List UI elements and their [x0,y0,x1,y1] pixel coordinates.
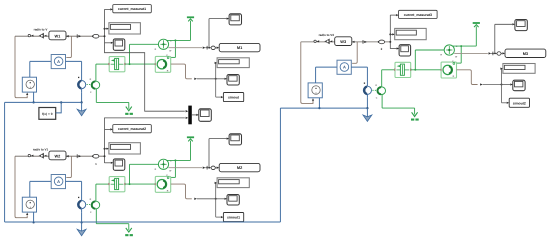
wire sensor 1 speed output to M1 [168,47,202,49]
rotational reference 3 [473,22,480,24]
wire measurement horizontal net 1 [15,35,105,37]
goto tag M2 [219,163,260,171]
arrow on measurement wire 1 [76,34,78,38]
wire damper 1 to motor inertia [125,63,155,65]
dc machine armature 1 [78,77,79,78]
dc voltage source 1 [22,77,36,92]
branch vertical wire 2 [104,129,106,163]
reference rail subsystem 2 [5,221,281,223]
wire source 2 bottom to reference rail [33,212,35,222]
wire sensor 1 case net and rotational reference 1 [167,39,191,41]
svg-text:A: A [57,59,60,64]
port oval before M2 [211,166,215,170]
dc machine armature 3 [364,83,365,84]
damper block 1 [109,57,125,72]
wire sensor 3 speed output to M3 [454,52,488,54]
rotational reference 1 [187,16,194,18]
electrical reference ground 1 [81,102,83,111]
block curent_masurat1 [113,5,152,13]
wire damper 2 to motor inertia [125,183,155,185]
wire measurement horizontal net 3 [301,41,391,43]
wire branch up to speed sensor 1 [129,44,131,64]
wire ammeter 2 output up to measurement net (brown) [66,156,71,177]
goto tag W1 [49,31,66,40]
scope 3b [513,80,525,91]
wire source 3 top to ammeter [315,67,317,83]
reference rail subsystem 1 [5,101,82,103]
wire junction to scope 1b [216,78,225,80]
goto tag W3 [335,37,352,46]
electromech converter 1 [92,81,100,89]
wire junction to display 1b [215,63,217,79]
display 1a [109,23,140,34]
wire machine 2 bottom to reference rail [81,212,83,222]
wire into display 1a [105,28,107,30]
wire junction to simout2 [501,85,503,103]
svg-text:simout: simout [228,96,240,100]
wire into curent_masurat3 [390,14,396,16]
svg-text:curent_masurat2: curent_masurat2 [118,127,146,131]
wire junction to simout [215,79,217,97]
electrical reference ground 3 [366,108,368,117]
goto tag M3 [505,49,546,57]
goto tag W2 [49,151,66,160]
wire down to motor 2 case [174,160,176,177]
wire motor 3 to measurement junction (brown) [457,70,478,85]
port oval 2 [93,154,99,158]
mux [188,106,192,125]
svg-text:M1: M1 [237,45,243,50]
wire ammeter 3 output up to measurement net (brown) [352,42,357,63]
svg-text:rad/s to V1: rad/s to V1 [33,147,49,151]
motor inertia block 1 [155,56,170,72]
wire gain output down to source 3 (brown) [301,42,313,103]
speed sensor 3 [444,45,454,55]
display 3a [395,28,427,39]
dc voltage source 3 [308,83,322,98]
port oval before M1 [211,46,215,50]
speed sensor 2 [158,159,168,169]
motor inertia block 3 [441,62,456,78]
arrow+port circle on ref wire 3 [314,40,316,42]
wire ammeter 1 to machine [66,60,82,62]
wire damper 3 to motor inertia [411,69,441,71]
svg-text:rad/s to V: rad/s to V [34,27,48,31]
wire measurement horizontal net 2 [15,155,105,157]
wire converter 3 to damper [381,70,383,87]
port oval before M3 [497,52,501,56]
electrical reference ground 2 [81,222,83,231]
wire down to motor 1 case [174,40,176,57]
arrow on measurement wire 2 [76,154,78,158]
wire into curent_masurat2 [105,128,111,130]
ps dashed link machine-converter 3 [372,89,377,91]
to-workspace block simout2 [509,98,529,107]
branch vertical wire 3 [389,15,391,49]
wire junction to scope 2b [216,198,225,200]
motor inertia block 2 [155,176,170,192]
wire converter 2 to mech ground [95,209,97,224]
wire sensor 3 case net and rotational reference 3 [453,45,477,47]
ps dashed link machine-converter 1 [87,84,92,86]
electromech converter 3 [378,87,386,95]
ammeter A3 [337,60,351,74]
scope 2a [113,159,125,170]
wire branch to scope 1top [208,19,210,48]
scope 1b [227,75,239,86]
dc machine armature 2 [78,197,79,198]
arrow+port circle on ref wire 2 [28,154,30,156]
branch vertical wire 1 [104,9,106,43]
wire into scope 2a [105,162,111,164]
scope mux [199,109,212,122]
wire sensor 2 speed output to M2 [168,167,202,169]
scope 1a [113,39,125,50]
solver block f(x)=0 [39,108,56,120]
svg-text:A: A [343,65,346,70]
wire motor 1 to measurement junction (brown) [171,64,192,79]
wire into scope 3a [390,48,396,50]
display 3b [503,64,535,74]
wire source 1 bottom to reference rail [33,92,35,102]
wire rail 1 to rail 2 [4,102,6,222]
wire junction to scope 3b [502,84,511,86]
speed sensor 1 [158,39,168,49]
block curent_masurat3 [399,10,438,18]
ps dashed link machine-converter 2 [87,204,92,206]
wire machine 3 bottom to reference rail [366,98,368,108]
wire source 3 bottom to reference rail [318,98,320,108]
svg-text:A: A [57,179,60,184]
svg-text:rad/s to V3: rad/s to V3 [319,33,335,37]
port oval 1 [93,34,99,38]
wire speed 2 to mux [105,118,185,129]
goto tag M1 [219,43,260,51]
wire into display 2a [105,148,107,150]
wire branch to scope 2top [208,139,210,168]
to-workspace block simout [223,93,243,102]
to-workspace block simout1 [223,213,243,222]
display 1b [217,58,249,68]
arrow on measurement wire 3 [362,40,364,44]
electromech converter 2 [92,201,100,209]
damper block 3 [395,62,411,77]
svg-text:curent_masurat1: curent_masurat1 [118,7,146,11]
wire speed 1 to mux [105,43,185,111]
wire converter 1 to damper [95,64,97,81]
display 2a [109,143,140,154]
ammeter A1 [51,55,65,69]
svg-text:simout1: simout1 [227,216,240,220]
dc voltage source 2 [22,197,36,212]
svg-text:f(x) = 0: f(x) = 0 [42,112,53,116]
gain rad/s-to-V 2 [39,153,44,159]
wire branch up to speed sensor 2 [129,164,131,184]
subsystem 2 (motor circuit 2, bottom-left) [15,125,260,237]
wire source 1 top to ammeter [29,61,31,77]
wire solver to rail [56,102,62,113]
wire into curent_masurat1 [105,8,111,10]
wire gain output down to source 1 (brown) [15,36,27,97]
wire branch up to speed sensor 3 [414,50,416,70]
wire sensor 2 case net and rotational reference 2 [167,159,191,161]
wire into display 3a [390,33,392,35]
scope 2top [229,134,241,145]
wire junction to simout1 [215,199,217,217]
wire gain output down to source 2 (brown) [15,156,27,218]
gain rad/s-to-V 3 [324,39,329,45]
svg-text:M3: M3 [523,51,529,56]
wire rail 2 to rail 3 [279,108,281,222]
wire ammeter 3 to machine [351,66,367,68]
svg-text:curent_masurat3: curent_masurat3 [404,13,432,17]
svg-text:W3: W3 [340,39,347,44]
wire junction to display 3b [501,69,503,85]
scope 3top [515,20,527,31]
svg-text:W1: W1 [54,33,61,38]
block curent_masurat2 [113,125,152,133]
scope 2b [227,195,239,206]
reference rail subsystem 3 [280,107,367,109]
svg-text:simout2: simout2 [513,101,526,105]
svg-text:W2: W2 [54,153,61,158]
wire ammeter 2 to machine [66,180,82,182]
scope 3a [399,45,411,56]
subsystem 3 (motor circuit 3, top-right) [301,10,546,121]
wire down to motor 3 case [460,46,462,63]
mechanical ground 1 [128,102,130,108]
mechanical ground 2 [128,224,130,230]
wire mux to scope [192,114,197,116]
display 2b [217,178,249,188]
wire converter 2 to damper [95,184,97,201]
arrow+port circle on ref wire 1 [28,34,30,36]
wire ammeter 1 output up to measurement net (brown) [66,36,71,57]
wire converter 1 to mech ground [95,89,97,103]
ammeter A2 [51,175,65,189]
scope 1top [229,14,241,25]
subsystem 1 (motor circuit 1, top-left) [15,5,260,116]
wire source 2 top to ammeter [29,181,31,197]
damper block 2 [109,177,125,192]
wire machine 1 bottom to reference rail [81,92,83,102]
wire junction to display 2b [215,183,217,199]
wire converter 3 to mech ground [381,95,383,109]
wire into scope 1a [105,42,111,44]
wire motor 2 to measurement junction (brown) [171,184,192,199]
mechanical ground 3 [414,108,416,114]
svg-text:M2: M2 [237,165,243,170]
port oval 3 [379,40,385,44]
gain rad/s-to-V 1 [39,33,44,39]
wire branch to scope 3top [494,24,496,53]
rotational reference 2 [187,136,194,138]
